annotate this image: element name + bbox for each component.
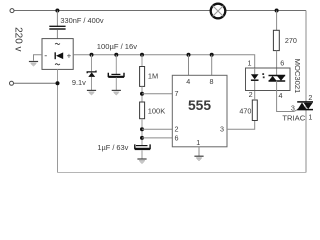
MOC LED bar (251, 79, 259, 81)
wire 470 to MOC pin 2 (254, 81, 256, 100)
ground (555 pin1) (194, 155, 203, 157)
capacitor C1 330nF/400v plates (49, 25, 65, 27)
IC U1 555 box (172, 75, 227, 147)
bridge ~ bottom (55, 64, 60, 65)
wire zener to ground (91, 77, 93, 90)
zener diode D1 bar (87, 71, 96, 74)
svg-text:330nF / 400v: 330nF / 400v (60, 16, 103, 25)
MOC triac bottom bar (269, 80, 286, 82)
capacitor C2 100uF plate (111, 73, 120, 75)
wire bridge left to ground (34, 55, 43, 61)
bridge diode bar (54, 52, 56, 59)
svg-text:4: 4 (279, 91, 283, 100)
ground (bridge minus) (29, 61, 38, 63)
bridge ~ top (55, 43, 60, 44)
wire Vcc rail from bridge + to MOC pin1 corner (73, 55, 255, 68)
svg-text:6: 6 (175, 133, 179, 142)
node dot 1M branch (140, 53, 144, 57)
wire pin1 to ground (198, 147, 200, 156)
svg-text:1M: 1M (148, 72, 158, 81)
wire left vertical from lower terminal to bottom rail (57, 83, 59, 172)
svg-text:470: 470 (239, 106, 251, 115)
bridge rectifier B1 box (42, 39, 73, 70)
svg-text:270: 270 (285, 36, 297, 45)
svg-text:8: 8 (210, 77, 214, 86)
terminal T1 top-left (10, 9, 14, 13)
wire top 220V rail (14, 10, 306, 12)
wire rail into MOC pin1 LED (254, 68, 256, 74)
node junction dot top right (275, 9, 279, 13)
wire rail to 1M (141, 55, 143, 67)
MOC triac left triangle (269, 76, 277, 81)
bridge diode triangle (56, 52, 63, 59)
wire 100K down to 1uF (141, 119, 143, 146)
node dot pin7 (140, 92, 144, 96)
node dot pin8 (210, 53, 214, 57)
svg-text:3: 3 (291, 104, 295, 113)
wire rail to zener (91, 55, 93, 71)
node dot pin6 (140, 136, 144, 140)
svg-text:TRIAC: TRIAC (282, 113, 305, 122)
svg-text:220 v: 220 v (12, 27, 23, 51)
svg-text:2: 2 (249, 90, 253, 99)
svg-text:MOC3021: MOC3021 (293, 59, 302, 94)
terminal T2 bottom-left (10, 81, 14, 85)
svg-text:-: - (44, 50, 47, 60)
MOC light marks (262, 73, 264, 75)
TRIAC right triangle (304, 103, 313, 109)
wire 270 to MOC pin 6 (276, 51, 278, 76)
svg-text:9.1v: 9.1v (72, 78, 86, 87)
wire bridge bottom to lower rail junction (57, 69, 59, 83)
wire bottom rail (58, 172, 307, 174)
svg-text:555: 555 (188, 98, 211, 113)
zener diode D1 triangle (88, 72, 95, 77)
lamp LA1 (211, 4, 226, 19)
svg-text:1: 1 (248, 59, 252, 68)
svg-text:3: 3 (220, 124, 224, 133)
svg-text:6: 6 (280, 58, 284, 67)
TRIAC left triangle (298, 103, 307, 110)
MOC triac top bar (269, 75, 286, 77)
wire to pin 8 (211, 55, 213, 76)
wire right rail (305, 11, 307, 173)
wire to pin 2 (142, 128, 172, 130)
ground (100uF) (112, 89, 121, 91)
wire C1 to bridge top (56, 30, 58, 39)
capacitor C2 100uF bracket (108, 73, 124, 77)
svg-text:4: 4 (186, 77, 190, 86)
svg-text:+: + (67, 51, 72, 60)
wire 1uF to ground (141, 150, 143, 159)
TRIAC bottom bar (297, 109, 313, 111)
ground (1uF) (137, 158, 146, 160)
wire 100uF to ground (115, 78, 117, 91)
node junction dot lower terminal row (56, 81, 60, 85)
MOC triac right triangle (277, 76, 285, 81)
ground (zener) (87, 89, 96, 91)
svg-text:1µF / 63v: 1µF / 63v (97, 143, 128, 152)
node dot pin4 (187, 53, 191, 57)
wire top junction to R 270 (276, 11, 278, 31)
capacitor C3 1uF bracket (135, 144, 150, 148)
resistor 470 (252, 100, 257, 121)
node dot 100uF branch (114, 53, 118, 57)
svg-text:2: 2 (308, 93, 312, 102)
svg-text:1: 1 (196, 138, 200, 147)
wire rail to 100uF (115, 55, 117, 74)
TRIAC top bar (297, 101, 313, 103)
wire MOC pin4 to triac gate (277, 81, 298, 112)
node dot zener branch (90, 53, 94, 57)
node junction dot top at C1 (55, 9, 59, 13)
svg-text:2: 2 (175, 124, 179, 133)
svg-text:7: 7 (175, 89, 179, 98)
node dot pin2 (140, 127, 144, 131)
wire pin3 to 470 (227, 121, 255, 130)
capacitor C3 1uF plate (136, 145, 148, 147)
resistor 270 (273, 30, 279, 50)
wire from top rail to C1 (56, 11, 58, 27)
svg-text:100µF / 16v: 100µF / 16v (97, 42, 137, 51)
wire lower terminal row (14, 82, 58, 84)
svg-text:1: 1 (308, 113, 312, 122)
MOC LED triangle (251, 74, 259, 79)
resistor 100K (140, 102, 145, 119)
wire to pin 4 (188, 55, 190, 76)
wire to pin 7 (142, 93, 172, 95)
resistor 1M (140, 67, 145, 87)
optocoupler U2 MOC3021 box (246, 68, 291, 91)
wire 1M to 100K (141, 86, 143, 102)
wire to pin 6 (142, 137, 172, 139)
svg-text:100K: 100K (148, 107, 166, 116)
